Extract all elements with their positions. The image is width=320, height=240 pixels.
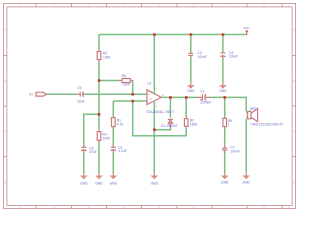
svg-text:47uF: 47uF: [89, 150, 97, 154]
junction D1 return on pin3 line: [153, 128, 156, 131]
resistor R5: [224, 116, 226, 119]
svg-text:4.7K: 4.7K: [117, 122, 125, 126]
diode D1: [168, 118, 173, 120]
junction output zobel: [223, 96, 226, 99]
junction node A R6 tap: [98, 79, 101, 82]
svg-text:GND: GND: [151, 181, 159, 185]
svg-text:C1: C1: [200, 90, 204, 94]
svg-text:C6: C6: [77, 86, 81, 90]
junction output R2: [185, 96, 188, 99]
svg-text:2200uF: 2200uF: [200, 101, 211, 105]
junction output D1: [169, 96, 172, 99]
ground under C2: [110, 173, 118, 186]
wire node A to R6: [99, 80, 119, 82]
junction C5 tap: [98, 113, 101, 116]
ground under C3: [187, 82, 195, 93]
capacitor C3: [190, 52, 192, 54]
speaker SPK1: [246, 112, 247, 114]
svg-text:GND: GND: [221, 181, 229, 185]
wire R1 C2 chain: [112, 101, 114, 116]
capacitor C7: [224, 145, 226, 148]
wire C3 drop: [190, 35, 192, 53]
wire U1 pin3 to GND: [153, 102, 155, 174]
junction R6 to pin1: [131, 93, 134, 96]
wire U1 pin2 from corner: [113, 100, 147, 102]
border frame inner: [7, 7, 292, 206]
resistor R1: [112, 116, 114, 119]
wire speaker to GND: [245, 119, 247, 174]
svg-text:100K: 100K: [103, 56, 112, 60]
svg-text:VCC: VCC: [243, 26, 250, 30]
wire U1 output to C1: [161, 96, 197, 98]
wire C4 drop: [222, 35, 224, 52]
wire U1 pin5 to VCC rail: [153, 35, 155, 93]
svg-text:-: -: [148, 100, 149, 103]
ground under C4: [219, 82, 227, 93]
wire zobel drop: [224, 97, 226, 116]
ground under U1 pin3: [151, 173, 159, 186]
svg-text:GND: GND: [242, 181, 250, 185]
wire D1 top: [169, 97, 171, 117]
wire V1 R3 to R4 bias chain: [98, 62, 100, 130]
junction feedback to pin2: [131, 100, 134, 103]
wire IN to C6: [46, 93, 77, 95]
resistor R4: [98, 129, 100, 131]
capacitor C5 (polarized): [83, 145, 85, 147]
op-amp U1 triangle: [147, 90, 161, 105]
wire V1 R4 to GND: [98, 143, 100, 174]
svg-text:GND: GND: [95, 181, 103, 185]
capacitor C4 (polarized): [222, 51, 224, 53]
svg-text:2.2uF: 2.2uF: [118, 149, 126, 153]
svg-text:SPK1: SPK1: [250, 107, 259, 111]
wire C1 to speaker corner: [210, 97, 246, 111]
junction rail C3: [190, 33, 193, 36]
svg-text:GND: GND: [80, 181, 88, 185]
wire D1 bottom to pin3 line: [154, 127, 170, 130]
wire V1 above R3: [98, 35, 100, 50]
svg-text:U1: U1: [147, 81, 151, 85]
wire C5 branch: [84, 114, 99, 145]
supply VCC: [243, 26, 250, 35]
wire VCC top rail: [99, 34, 247, 36]
svg-text:GND: GND: [110, 181, 118, 185]
border frame outer: [4, 4, 296, 209]
svg-text:CMS-151135-078X-67: CMS-151135-078X-67: [250, 123, 283, 127]
wire C6 to U1 pin1: [84, 93, 147, 95]
svg-text:100uF: 100uF: [229, 55, 238, 59]
resistor R3: [98, 49, 100, 52]
svg-text:100nF: 100nF: [198, 55, 207, 59]
ground under C7: [221, 173, 229, 185]
svg-text:TDA2030AL-TB5-T: TDA2030AL-TB5-T: [146, 110, 174, 114]
resistor R6 (horizontal): [119, 80, 122, 82]
capacitor C6 (series, polarized): [77, 93, 80, 95]
svg-text:1: 1: [228, 122, 230, 126]
capacitor C1 (series, polarized): [197, 96, 201, 98]
junction VCC rail pin5: [153, 33, 156, 36]
port IN: [36, 92, 46, 96]
ground under R4: [95, 173, 103, 186]
junction rail C4: [222, 33, 225, 36]
svg-text:D1 1N4007: D1 1N4007: [161, 124, 178, 128]
svg-text:100K: 100K: [103, 136, 112, 140]
svg-text:GND: GND: [219, 89, 227, 93]
wire R2 top to output: [185, 97, 187, 116]
ground under C5: [80, 173, 88, 186]
svg-text:GND: GND: [187, 89, 195, 93]
capacitor C2 (polarized): [112, 145, 114, 147]
svg-text:100nF: 100nF: [230, 150, 239, 154]
svg-text:100K: 100K: [122, 82, 131, 86]
resistor R2: [185, 116, 187, 119]
svg-text:150K: 150K: [190, 123, 199, 127]
ground under SPK1: [242, 173, 250, 185]
wire feedback drop from pin2 net: [133, 101, 187, 136]
wire R6 right down to pin1 net: [132, 81, 134, 95]
svg-text:22uF: 22uF: [77, 99, 85, 103]
svg-text:R6: R6: [122, 74, 126, 78]
